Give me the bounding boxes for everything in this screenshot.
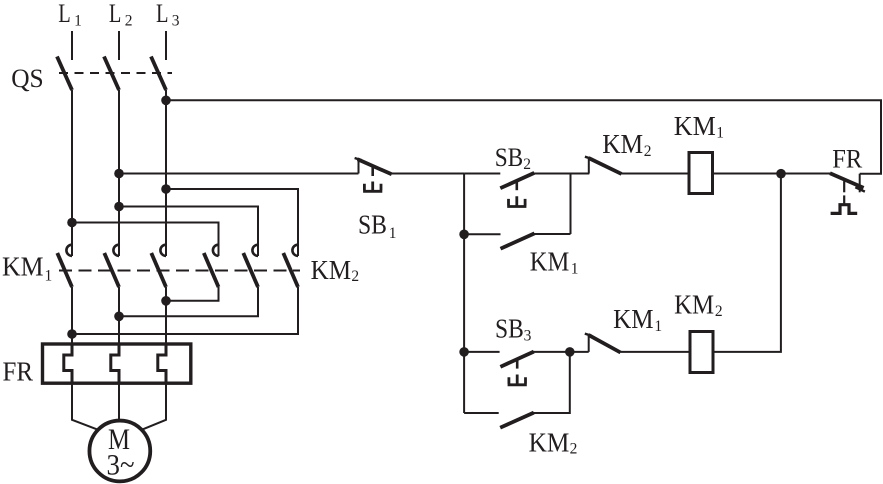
node L1 <box>58 0 82 30</box>
wire to KM2 NC <box>571 173 590 175</box>
node dot B <box>776 169 786 179</box>
wire L3 vertical <box>165 90 167 256</box>
contact KM1 aux (NO self-hold) <box>501 233 535 248</box>
wire node A vertical <box>463 174 465 414</box>
label SB1 <box>358 209 396 242</box>
label KM1 coil <box>674 111 724 142</box>
svg-text:2: 2 <box>644 143 652 160</box>
svg-text:KM: KM <box>529 427 570 457</box>
label KM2 contactor <box>311 255 360 285</box>
contact KM2 NC interlock <box>585 157 622 174</box>
svg-text:L: L <box>58 0 71 28</box>
svg-text:KM: KM <box>613 304 653 334</box>
label KM2 aux <box>529 427 578 457</box>
wire KM1 aux left <box>464 233 500 235</box>
wire motor lead U <box>72 383 98 429</box>
wire motor lead W <box>142 383 166 429</box>
wire KM2 aux branch bottom <box>464 412 499 414</box>
label SB2 <box>495 143 531 173</box>
svg-text:2: 2 <box>715 303 723 320</box>
thermal relay FR box <box>43 344 191 383</box>
wire KM2 aux right <box>534 352 570 413</box>
pushbutton SB3 (NO start rev) <box>500 352 533 385</box>
wire KM2 pole1 bottom to L3 <box>166 287 219 301</box>
node dot L3 return <box>161 296 171 306</box>
wire L1 to KM2 pole1 top <box>72 223 219 257</box>
node dot L1 crossover tap <box>67 218 77 228</box>
contactor KM1 pole 2 <box>104 245 119 287</box>
svg-text:2: 2 <box>351 268 359 285</box>
svg-text:L: L <box>156 0 169 28</box>
svg-text:3: 3 <box>172 13 180 30</box>
svg-text:FR: FR <box>832 143 862 173</box>
svg-text:KM: KM <box>674 111 716 141</box>
svg-text:L: L <box>109 0 122 28</box>
pushbutton SB1 (NC stop) <box>355 158 392 191</box>
wire control main left <box>119 173 359 175</box>
coil KM1 <box>689 153 713 194</box>
switch QS pole 3 <box>151 57 166 91</box>
motor M <box>89 421 150 482</box>
node dot L2 control tap <box>114 169 124 179</box>
svg-text:FR: FR <box>3 355 34 386</box>
svg-text:1: 1 <box>654 318 662 335</box>
svg-text:QS: QS <box>11 63 44 93</box>
contactor KM1 pole 1 <box>57 245 72 287</box>
svg-text:3: 3 <box>524 328 532 345</box>
wire L2 stub <box>118 31 120 60</box>
label FR contact <box>832 143 862 173</box>
contactor KM2 pole 1 <box>204 245 219 287</box>
label KM1 NC <box>613 304 662 335</box>
svg-text:1: 1 <box>74 13 82 30</box>
svg-text:2: 2 <box>570 441 578 458</box>
svg-text:SB: SB <box>495 313 524 343</box>
svg-text:KM: KM <box>2 251 44 281</box>
contact KM2 aux (NO self-hold) <box>500 413 534 428</box>
label KM2 NC <box>602 129 651 160</box>
svg-text:2: 2 <box>125 13 133 30</box>
label KM1 contactor <box>2 251 52 284</box>
node L2 <box>109 0 133 30</box>
wire coil KM2 return <box>713 174 781 352</box>
wire SB1 to node A <box>391 173 465 175</box>
node dot L1 return <box>67 329 77 339</box>
node dot L3 crossover tap <box>161 184 171 194</box>
wire L2 below KM1 <box>118 287 120 344</box>
FR heater element 2 <box>111 344 119 383</box>
wire vertical SB2/KM1aux right <box>570 174 572 235</box>
wire L3 to KM2 pole3 top <box>166 189 298 256</box>
node L3 <box>156 0 180 30</box>
wire KM2NC to coil KM1 <box>621 173 690 175</box>
KM linkage dashed <box>59 270 300 272</box>
switch QS pole 2 <box>104 57 119 91</box>
wire KM2 pole2 bottom to L2 <box>119 287 258 316</box>
svg-text:1: 1 <box>716 125 724 142</box>
FR heater element 3 <box>158 344 166 383</box>
FR heater element 1 <box>64 344 72 383</box>
node dot rung2 mid <box>565 347 575 357</box>
wire KM1NC to coil KM2 <box>620 351 690 353</box>
svg-text:SB: SB <box>495 143 524 172</box>
svg-text:3~: 3~ <box>107 449 135 482</box>
contactor KM2 pole 2 <box>243 245 258 287</box>
switch QS pole 1 <box>57 57 72 91</box>
svg-text:KM: KM <box>674 290 714 320</box>
wire L1 stub <box>71 31 73 60</box>
wire to KM1 NC <box>570 351 589 353</box>
svg-text:KM: KM <box>311 255 352 285</box>
wire rung2 left <box>464 351 500 353</box>
label SB3 <box>495 313 532 344</box>
node dot L2 crossover tap <box>114 202 124 212</box>
node dot L3 top rail <box>161 96 171 106</box>
node dot rung2 left <box>459 347 469 357</box>
svg-text:2: 2 <box>523 156 531 173</box>
label QS <box>11 63 44 93</box>
contact FR NC overload <box>830 173 865 213</box>
wire node A to SB2 <box>464 173 500 175</box>
wire top rail <box>166 100 881 173</box>
label FR thermal <box>3 355 34 386</box>
wire KM2 pole3 bottom to L1 <box>72 287 298 334</box>
svg-text:KM: KM <box>602 129 643 159</box>
wire L3 below KM1 <box>165 287 167 344</box>
pushbutton SB2 (NO start fwd) <box>500 173 534 207</box>
coil KM2 <box>690 332 713 373</box>
svg-text:SB: SB <box>358 209 387 239</box>
node dot A lower <box>459 230 469 240</box>
label KM1 aux <box>530 246 579 277</box>
label KM2 coil <box>674 290 723 320</box>
contactor KM1 pole 3 <box>151 245 166 287</box>
svg-text:KM: KM <box>530 246 570 276</box>
svg-text:1: 1 <box>571 261 579 278</box>
svg-text:1: 1 <box>45 267 53 284</box>
wire L1 vertical <box>71 90 73 256</box>
wire L2 to KM2 pole2 top <box>119 207 258 257</box>
wire SB2 right <box>534 173 571 175</box>
node dot L2 return <box>114 312 124 322</box>
wire motor lead V <box>118 383 120 419</box>
svg-text:1: 1 <box>389 225 397 242</box>
QS linkage dashed <box>59 72 172 74</box>
wire SB3 right <box>534 351 570 353</box>
wire L1 below KM1 <box>71 287 73 344</box>
contact KM1 NC interlock <box>585 334 621 353</box>
wire coil KM1 to FR <box>713 173 831 175</box>
wire L3 stub <box>165 31 167 60</box>
contactor KM2 pole 3 <box>283 245 298 287</box>
wire L2 vertical <box>118 90 120 256</box>
wire KM1 aux right <box>534 233 571 235</box>
